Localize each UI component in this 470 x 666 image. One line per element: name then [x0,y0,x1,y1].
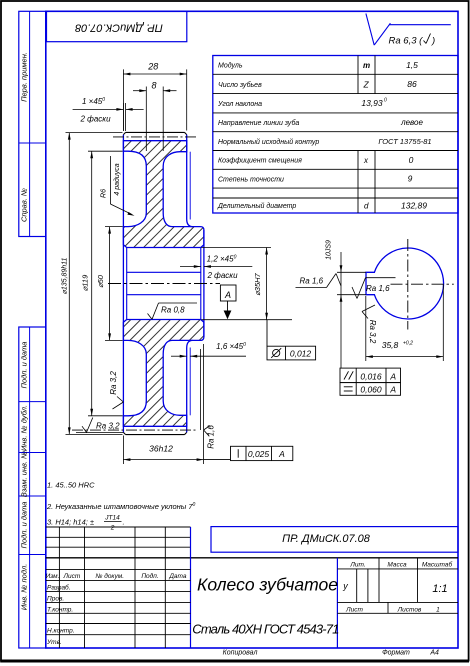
svg-text:Модуль: Модуль [218,62,243,70]
svg-text:0,016: 0,016 [360,371,382,381]
svg-text:0: 0 [384,98,387,104]
svg-text:Ra 3,2: Ra 3,2 [96,422,120,431]
svg-text:Масштаб: Масштаб [422,561,453,569]
svg-text:Ra 3,2: Ra 3,2 [109,371,118,395]
svg-text:1,2 ×450: 1,2 ×450 [207,254,237,263]
dimension 35,8 +0,2 [366,284,444,361]
hub right face line [203,230,205,337]
detail vertical centerline [407,239,409,330]
svg-text:2 фаски: 2 фаски [206,271,238,280]
chamfer dim 1.6x45 [171,349,246,430]
svg-text:Нормальный исходный контур: Нормальный исходный контур [218,138,319,146]
svg-text:Изм.: Изм. [46,573,60,580]
svg-text:0,012: 0,012 [290,348,312,358]
dimension 36h12 [123,344,203,464]
svg-text:Взам. инв. №: Взам. инв. № [20,451,29,497]
gear section upper half (hatched cut region) [123,141,203,248]
chamfer dim 1x45 2 faski [73,103,144,131]
dimension 28 [123,69,186,130]
svg-text:Число зубьев: Число зубьев [218,81,262,89]
svg-text:): ) [431,36,435,47]
svg-text:Угол наклона: Угол наклона [217,101,262,108]
svg-text:35,8: 35,8 [382,340,399,350]
gear axis line (dash-dot) [108,283,220,285]
svg-text:+0,2: +0,2 [403,341,413,347]
left margin upper column box [19,11,46,236]
svg-text:1,6 ×450: 1,6 ×450 [216,342,246,351]
bore chamfer edge verticals [126,248,128,320]
svg-text:R6: R6 [100,189,107,198]
svg-text:A4: A4 [429,650,439,657]
datum A flag [220,285,236,311]
recess chamfer edge line right lower [189,348,191,416]
svg-text:132,89: 132,89 [401,201,427,211]
gear right rim face and recess silhouette lower [187,340,193,432]
svg-text:Лист: Лист [63,573,81,580]
svg-text:Листов: Листов [397,606,422,613]
svg-text:13,93: 13,93 [361,98,383,108]
roughness Ra 3,2 rotated near frames [362,305,375,319]
svg-text:m: m [363,61,370,70]
dimension dia 50 [105,227,123,341]
svg-text:Масса: Масса [387,562,407,569]
roughness Ra 3,2 bottom left [76,418,123,433]
svg-text:Ra 6,3 (: Ra 6,3 ( [389,36,424,47]
gear right rim face and recess silhouette upper [187,135,193,227]
svg-text:Инв. № подл.: Инв. № подл. [20,564,29,611]
svg-text:№ докум.: № докум. [95,572,124,580]
svg-text:Подп.: Подп. [141,572,158,580]
svg-text:JT14: JT14 [104,515,120,522]
gear section lower half (hatched cut region) [123,320,203,427]
title block header captions [46,572,187,646]
svg-text:ПР. ДМиСК.07.08: ПР. ДМиСК.07.08 [282,533,371,545]
svg-text:Пров.: Пров. [47,595,64,602]
gear left face line [122,135,124,433]
roughness Ra 1,6 on hub face (rotated) [204,426,210,437]
svg-text:A: A [389,385,396,395]
svg-text:Дата: Дата [168,573,187,580]
dimension 10JS9 [337,252,366,368]
svg-text:Ra 0,8: Ra 0,8 [161,306,185,315]
dimension 8 [133,87,177,152]
svg-text:2: 2 [110,525,115,532]
dimension dia 35H7 [202,248,293,320]
svg-text:1: 1 [436,606,440,613]
svg-text:⌀35Н7: ⌀35Н7 [253,272,262,295]
symmetry frame 0,060 A [340,383,401,396]
svg-text:Подп. и дата: Подп. и дата [20,502,29,549]
lit massa masshtab [345,561,452,614]
svg-text:86: 86 [407,79,417,89]
svg-text:⌀119: ⌀119 [81,274,90,291]
title block left row lines [46,569,191,634]
svg-text:Подп. и дата: Подп. и дата [20,342,29,389]
svg-text:9: 9 [408,174,413,184]
top designation box [47,11,187,41]
footer texts [223,650,439,657]
svg-text:1,5: 1,5 [406,60,418,70]
svg-text:Перв. примен.: Перв. примен. [20,52,29,102]
keyway edge lines in bore [127,271,201,273]
svg-text:Лит.: Лит. [349,562,365,569]
detail view: bore circle with keyway [366,248,444,319]
svg-text:Справ. №: Справ. № [20,188,29,222]
title block small upper table [46,527,191,648]
roughness Ra 1,6 inside circle [352,278,396,299]
svg-text:Ra 3,2: Ra 3,2 [368,320,377,344]
svg-text:2. Неуказанные штамповочные ук: 2. Неуказанные штамповочные уклоны 70 [46,502,196,511]
cylindricity frame 0,012 [267,320,316,360]
svg-text:ГОСТ 13755-81: ГОСТ 13755-81 [378,137,431,146]
svg-text:Колесо зубчатое: Колесо зубчатое [197,575,338,595]
detail horizontal centerline [391,283,454,285]
svg-text:Направление линии зуба: Направление линии зуба [218,119,299,127]
svg-text:36h12: 36h12 [149,443,173,453]
svg-text:Сталь 40ХН ГОСТ 4543-71: Сталь 40ХН ГОСТ 4543-71 [192,622,339,637]
svg-text:28: 28 [147,62,158,72]
table row 1 Module [217,60,432,211]
svg-text:ПР. ДМиСК.07.08: ПР. ДМиСК.07.08 [74,22,163,34]
svg-text:Ra 1,6: Ra 1,6 [300,277,324,286]
title block right section lines [337,558,458,614]
roughness Ra 3,2 on left face (rotated) [113,397,124,410]
recess chamfer edge line right upper [189,152,191,220]
chamfer dim 1.2x45 2 faski [180,266,252,268]
svg-text:у: у [342,581,348,591]
svg-text:3. Н14; h14; ±: 3. Н14; h14; ± [47,518,94,527]
svg-text:A: A [224,290,231,300]
gear parameter table [213,56,458,214]
svg-text:1 ×450: 1 ×450 [82,97,105,106]
svg-text:Инв. № дубл.: Инв. № дубл. [20,405,29,451]
svg-text:Утв.: Утв. [46,639,62,646]
svg-text:⌀135,89h11: ⌀135,89h11 [61,258,68,295]
runout tolerance frame 0,025 A [204,446,293,460]
svg-text:0: 0 [409,155,414,165]
svg-text:Формат: Формат [382,650,410,657]
svg-text:Н.контр.: Н.контр. [47,628,75,635]
svg-text:Ra 1,6: Ra 1,6 [206,425,215,449]
svg-text:d: d [364,202,369,211]
dimension dia 135.89h11 [66,133,123,435]
pitch line bottom (dash-dot) [72,429,197,431]
svg-text:левое: левое [400,118,423,127]
roughness Ra 0,8 on bore [148,303,198,319]
tip line bottom [123,432,186,434]
svg-text:Копировал: Копировал [223,650,258,657]
svg-text:Ra 1,6: Ra 1,6 [366,284,390,293]
svg-text:⌀50: ⌀50 [96,274,105,288]
svg-text:8: 8 [151,80,156,90]
left margin lower column box [19,327,46,648]
svg-text:Коэффициент смещения: Коэффициент смещения [218,158,302,165]
svg-text:1. 45..50 HRC: 1. 45..50 HRC [47,481,95,490]
svg-text:Т.контр.: Т.контр. [47,606,73,613]
svg-text:Z: Z [363,79,370,89]
svg-text:10JS9: 10JS9 [326,240,333,260]
title block main dividers [190,527,192,648]
svg-text:0,060: 0,060 [360,385,382,395]
svg-text:0,025: 0,025 [248,449,270,459]
svg-text:Степень точности: Степень точности [218,176,284,183]
svg-text:1:1: 1:1 [432,583,447,595]
tip line top [123,132,186,134]
parallelism frame 0,016 A [340,368,401,383]
dimension dia 119 [88,151,123,416]
svg-text:2 фаски: 2 фаски [79,114,111,123]
fillet radius leader R6 4 radiusa [110,156,131,214]
corner roughness symbol [366,14,451,46]
pitch line top (dash-dot) [113,136,197,138]
title block top line [46,557,458,559]
roughness Ra 1,6 keyway bottom [296,274,342,288]
svg-text:A: A [278,449,285,459]
svg-text:4 радиуса: 4 радиуса [113,163,121,195]
svg-text:A: A [389,371,396,381]
svg-text:Разраб.: Разраб. [47,583,71,591]
title block: designation box [211,527,458,553]
svg-text:Лист: Лист [345,606,363,613]
svg-text:Делительный диаметр: Делительный диаметр [217,202,296,210]
svg-text:.: . [123,518,125,527]
